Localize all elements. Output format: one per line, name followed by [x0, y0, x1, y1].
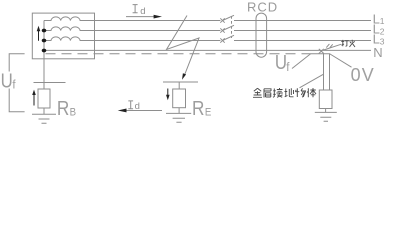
打 — [341, 40, 344, 46]
transformer T1 box — [32, 13, 94, 59]
junction dot star point N — [42, 49, 47, 53]
ground under RB — [32, 114, 56, 123]
接 — [273, 88, 283, 97]
svg-text:RCD: RCD — [247, 0, 278, 15]
fault bolt (lightning) — [167, 16, 200, 75]
label Id bottom — [128, 101, 140, 112]
spark leader from 打火 — [324, 44, 341, 50]
breaker contact S3 on L3 — [220, 35, 234, 42]
ground under metal object — [315, 112, 337, 121]
junction dot star point W3 — [42, 39, 47, 43]
wire: line L2 — [95, 30, 372, 32]
RCD toroid U1 — [256, 13, 267, 57]
metal object left conductor — [323, 54, 325, 90]
wire to ground (metal object) — [325, 109, 327, 113]
wire RB to ground — [43, 108, 45, 114]
Id arrowhead bottom — [118, 109, 127, 113]
junction dot star point W2 — [42, 29, 47, 33]
Id arrow top (line) — [126, 16, 155, 18]
earth bar at RB — [34, 82, 66, 84]
火 — [350, 40, 356, 47]
金 — [253, 88, 262, 97]
svg-text:R: R — [57, 97, 69, 120]
wire: PE conductor (dashed) — [46, 53, 307, 55]
resistor R (metal object earth) — [319, 90, 332, 109]
wire: line L1 — [95, 20, 372, 22]
metal object right conductor — [329, 54, 331, 90]
resistor RE — [173, 89, 186, 108]
label Id top — [133, 5, 146, 17]
leader to 0V — [330, 54, 352, 67]
svg-text:0V: 0V — [351, 65, 375, 85]
svg-text:2: 2 — [380, 26, 385, 36]
metal object bar — [306, 53, 330, 55]
wire: line L3 — [95, 40, 372, 42]
breaker contact S1 on L1 — [220, 15, 234, 22]
wire bar to RE — [178, 82, 180, 89]
svg-text:L: L — [373, 31, 380, 46]
Id arrowhead top — [154, 15, 162, 19]
wire: neutral N — [44, 49, 371, 51]
svg-text:d: d — [140, 6, 145, 17]
leader to Uf right — [292, 54, 311, 69]
属 — [264, 89, 272, 98]
svg-text:f: f — [286, 62, 290, 74]
svg-text:U: U — [1, 69, 13, 92]
svg-text:U: U — [275, 51, 287, 74]
物 — [295, 88, 305, 97]
star-point current arrow (up) — [38, 31, 40, 41]
breaker linkage (dashed) — [231, 16, 233, 38]
svg-text:R: R — [192, 97, 204, 120]
leader from 金属接地物体 — [300, 74, 324, 88]
svg-text:E: E — [205, 107, 212, 119]
winding W1 (phase L1) — [44, 17, 95, 21]
ground under RE — [166, 113, 191, 122]
svg-text:N: N — [373, 45, 382, 60]
winding W2 (phase L2) — [44, 27, 95, 31]
current arrow at RE (down) — [167, 89, 169, 96]
current arrow at RB (up) — [33, 94, 35, 106]
Id arrow bottom (line) — [126, 110, 163, 112]
label Uf left — [1, 72, 18, 89]
体 — [307, 88, 316, 97]
Uf bracket left — [9, 54, 24, 112]
wire RE to ground — [178, 108, 180, 114]
wire: neutral star-point bus — [43, 21, 45, 90]
winding W3 (phase L3) — [44, 37, 95, 41]
resistor RB — [38, 89, 50, 108]
地 — [285, 88, 294, 97]
breaker contact S2 on L2 — [220, 25, 234, 32]
svg-text:B: B — [70, 107, 77, 119]
label 打火 (hand-drawn strokes) — [341, 40, 355, 47]
spark mark at N break — [319, 49, 324, 54]
svg-text:d: d — [135, 101, 140, 112]
label 金属接地物体 (hand-drawn strokes) — [253, 88, 316, 98]
svg-text:1: 1 — [380, 16, 385, 26]
bolt arrowhead onto RE bar — [182, 73, 186, 80]
earth bar at RE — [163, 81, 198, 83]
